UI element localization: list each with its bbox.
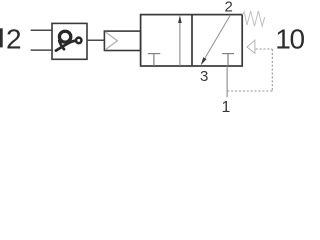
svg-text:1: 1 [222,99,231,113]
svg-text:0: 0 [290,23,306,54]
svg-text:3: 3 [200,68,208,85]
svg-text:2: 2 [225,0,233,15]
svg-text:2: 2 [6,23,22,54]
